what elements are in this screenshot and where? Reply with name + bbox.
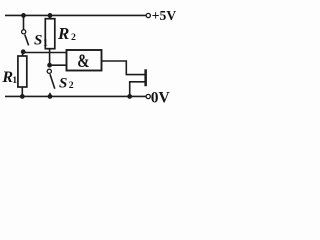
node bottom-rail junction at sounder (127, 94, 132, 99)
svg-text:1: 1 (12, 75, 17, 86)
resistor R2 body (45, 19, 55, 49)
svg-text:S: S (59, 76, 67, 92)
wire R2 bottom to node B (crosses input wire 1, no join) (49, 49, 51, 65)
svg-text:+5V: +5V (152, 8, 177, 23)
switch S2 contact circle (47, 69, 51, 73)
wire node A to gate input 1 (23, 52, 66, 54)
svg-text:2: 2 (71, 32, 76, 43)
wire S2 bottom contact to 0V rail (49, 93, 51, 97)
svg-text:S: S (34, 33, 42, 49)
svg-text:1: 1 (43, 37, 48, 48)
wire node A to R1 top (22, 52, 24, 56)
node B junction R2/S2/gate-input2 (47, 63, 52, 68)
svg-text:2: 2 (69, 80, 74, 91)
sounder BL top prong already drawn; bottom prong (130, 82, 145, 97)
wire rail to R2 top (49, 15, 51, 18)
wire top +5V rail (5, 14, 146, 16)
switch S1 contact circle (22, 30, 26, 34)
switch S1 blade (25, 35, 29, 46)
node bottom-rail junction at S2 (48, 94, 53, 99)
wire R1 bottom to 0V rail (21, 87, 23, 96)
node A junction S1/R1/gate-input1 (21, 49, 26, 54)
node bottom-rail junction at R1 (20, 94, 25, 99)
wire gate output (102, 61, 146, 75)
wire bottom 0V rail (5, 95, 146, 97)
wire rail to S1 (23, 15, 25, 29)
svg-text:R: R (57, 24, 69, 43)
terminal 0V (146, 94, 150, 98)
gate U1 AND body (67, 50, 102, 71)
wire node B to gate input 2 (50, 64, 67, 66)
svg-text:&: & (77, 50, 89, 71)
terminal +5V (146, 13, 150, 17)
svg-text:0V: 0V (151, 90, 171, 107)
node top-rail junction at S1 (21, 13, 26, 18)
gate symbol & (77, 50, 89, 71)
switch S2 blade (50, 74, 55, 89)
node top-rail junction at R2 (48, 13, 53, 18)
sounder BL plate (144, 69, 147, 86)
resistor R1 body (18, 56, 27, 87)
